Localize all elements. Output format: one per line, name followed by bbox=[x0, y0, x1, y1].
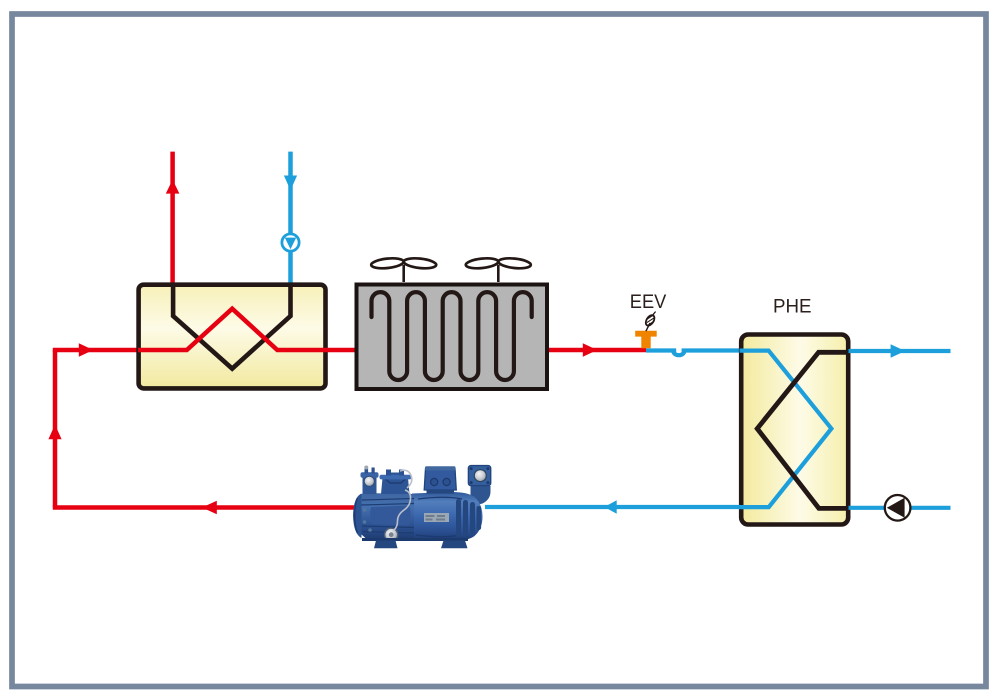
wire: blue cold-in vertical above HX bbox=[288, 152, 293, 290]
compressor motor body bbox=[412, 492, 483, 541]
pump P1 on cold-in line bbox=[282, 234, 299, 251]
compressor suction flange eye bbox=[474, 469, 487, 482]
plate heat exchanger PHE body bbox=[741, 335, 848, 525]
arrow left on bottom horizontal bbox=[202, 501, 217, 514]
arrow down on cold-in vertical bbox=[284, 176, 297, 191]
compressor feet bbox=[374, 541, 398, 549]
arrow right on outlet bbox=[891, 344, 906, 357]
wire: blue line EEV to PHE with sensor bump bbox=[646, 351, 740, 356]
arrow right on top horizontal bbox=[79, 343, 94, 356]
HX1 internal red refrigerant path bbox=[138, 309, 355, 350]
fan F1 bbox=[371, 257, 437, 282]
pump P2 on return line bbox=[885, 495, 911, 521]
wire: red bottom horizontal to compressor bbox=[53, 505, 368, 510]
arrow up on left vertical bbox=[48, 425, 61, 440]
compressor valve cluster bbox=[381, 473, 410, 495]
EEV stepper coil icon bbox=[644, 312, 656, 331]
compressor motor nameplate bbox=[424, 513, 449, 522]
wire: blue outlet line right of PHE bbox=[849, 349, 951, 353]
wire: blue return line right of PHE bbox=[849, 506, 951, 510]
HX1 internal black water path bbox=[173, 284, 290, 369]
compressor suction flange block bbox=[468, 466, 490, 486]
wire: blue suction line PHE to compressor bbox=[485, 505, 740, 509]
compressor head cover bbox=[370, 506, 411, 526]
wire: red discharge line, left vertical bbox=[53, 350, 58, 508]
svg-text:PHE: PHE bbox=[773, 296, 812, 318]
wire: red line condenser to EEV bbox=[548, 348, 646, 353]
heat exchanger HX1 (desuperheater) body bbox=[139, 285, 326, 389]
svg-text:EEV: EEV bbox=[630, 291, 667, 313]
compressor end fins bbox=[456, 499, 481, 537]
PHE internal black path bbox=[757, 352, 849, 508]
arrow right before EEV bbox=[583, 343, 598, 356]
compressor bolts left bbox=[363, 508, 367, 512]
compressor terminal box bbox=[424, 469, 456, 491]
fan F2 bbox=[465, 257, 531, 282]
wire: red top horizontal into HX bbox=[53, 348, 140, 353]
condenser coil bbox=[372, 292, 532, 380]
compressor left end cap bbox=[353, 494, 362, 539]
compressor base shadow bbox=[362, 538, 468, 541]
compressor bbox=[353, 466, 491, 549]
compressor top silver cap bbox=[364, 476, 375, 487]
PHE internal blue path bbox=[740, 351, 832, 508]
wire: red hot-out vertical above HX bbox=[170, 152, 175, 290]
compressor sight glass bbox=[384, 528, 398, 542]
compressor head ribs bbox=[362, 499, 415, 534]
compressor cylinder head block bbox=[360, 493, 414, 540]
compressor head top tower left bbox=[363, 475, 377, 495]
compressor suction duct bbox=[471, 486, 491, 506]
arrow left on suction line bbox=[604, 500, 616, 513]
condenser body bbox=[357, 285, 548, 390]
compressor capillary tube bbox=[394, 490, 411, 530]
compressor motor ribs bbox=[416, 497, 462, 537]
EEV valve orange body bbox=[635, 331, 657, 349]
arrow up on hot-out vertical bbox=[166, 180, 180, 194]
